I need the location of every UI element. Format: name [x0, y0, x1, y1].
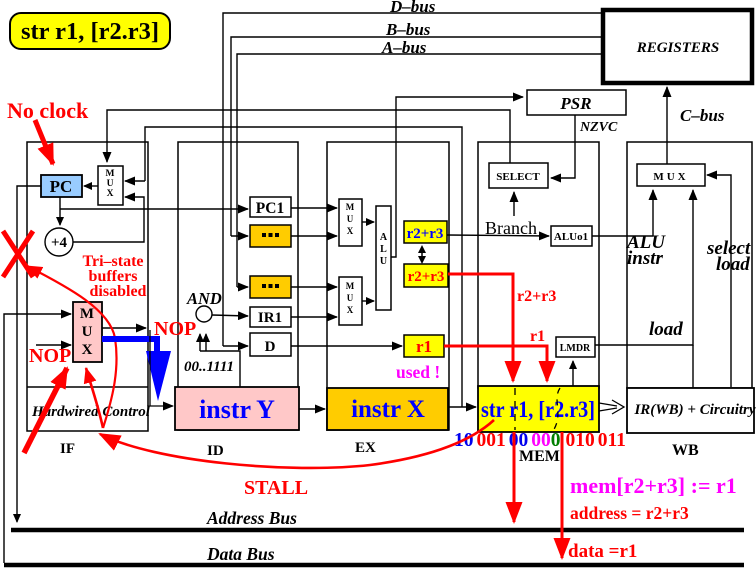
svg-text:STALL: STALL — [244, 477, 308, 499]
svg-text:IF: IF — [60, 441, 75, 457]
svg-text:load: load — [649, 319, 683, 340]
dashed line in str latch — [514, 388, 516, 430]
wire mux output NOP — [102, 327, 146, 329]
svg-text:PC: PC — [50, 177, 73, 196]
wire AND inputs from instr Y — [200, 334, 240, 387]
svg-text:r2+r3: r2+r3 — [407, 226, 444, 242]
instruction label box str r1, [r2.r3] — [10, 13, 170, 49]
A-bus wire — [237, 54, 602, 287]
wire PC to +4 — [59, 197, 61, 225]
svg-text:Data Bus: Data Bus — [206, 544, 275, 564]
svg-text:X: X — [347, 226, 354, 236]
wire A-bus arrow into A operand — [237, 286, 248, 288]
red arrow from stall to mux — [86, 368, 103, 428]
svg-text:D–bus: D–bus — [389, 0, 436, 16]
LMDR box — [556, 337, 595, 357]
B-bus wire — [231, 37, 602, 236]
double arrow str to IR(WB) — [599, 400, 624, 414]
svg-text:L: L — [380, 244, 387, 255]
wire +4 to mux — [73, 197, 144, 242]
ID stage box — [178, 142, 298, 430]
svg-text:00..1111: 00..1111 — [184, 359, 234, 375]
latch IR(WB) + Circuitry — [627, 388, 756, 433]
label select load — [706, 238, 751, 275]
svg-text:Branch: Branch — [485, 218, 537, 238]
svg-text:load: load — [716, 254, 750, 275]
red wire r1 to MEM — [444, 346, 547, 381]
svg-text:U: U — [347, 293, 354, 303]
wire PC to address bus — [17, 186, 41, 522]
wire SELECT to PC-mux — [107, 110, 510, 163]
wire AND to IR1 — [212, 315, 248, 316]
blue NOP insert arrow — [102, 339, 171, 401]
adder +4 — [45, 228, 73, 256]
svg-text:NOP: NOP — [29, 345, 71, 367]
svg-text:M: M — [346, 281, 355, 291]
svg-text:M: M — [346, 202, 355, 212]
register B operand (dots) — [250, 225, 291, 247]
red wire address to bus — [513, 432, 516, 522]
wire D-bus arrow into D — [223, 345, 248, 347]
svg-text:U: U — [107, 179, 114, 189]
svg-text:X: X — [347, 305, 354, 315]
latch instr Y — [175, 387, 299, 430]
svg-text:data =r1: data =r1 — [568, 541, 637, 562]
svg-text:U: U — [347, 214, 354, 224]
MEM stage box — [478, 142, 599, 388]
transfer arrow between r2+r3 registers — [418, 245, 426, 264]
mux WB — [637, 164, 705, 186]
ALUo1 box — [551, 226, 592, 246]
latch instr X — [327, 388, 448, 430]
svg-text:B–bus: B–bus — [385, 20, 431, 39]
EX stage box — [327, 142, 449, 430]
wire mux to instr Y — [150, 330, 173, 406]
wire LMDR to WB mux (load) — [595, 190, 693, 345]
wire Branch to SELECT — [513, 192, 515, 216]
REGISTERS box — [603, 10, 752, 83]
label ALU instr — [626, 232, 666, 269]
svg-text:WB: WB — [672, 442, 699, 459]
svg-text:instr Y: instr Y — [199, 395, 275, 424]
svg-text:REGISTERS: REGISTERS — [636, 40, 720, 56]
latch str r1 [r2.r3] — [478, 386, 599, 432]
svg-text:+4: +4 — [51, 235, 68, 251]
svg-text:EX: EX — [355, 440, 376, 456]
dashed squiggle in str latch — [553, 388, 560, 431]
register r2+r3 upper — [404, 221, 447, 243]
WB stage box — [627, 142, 752, 388]
svg-text:PSR: PSR — [559, 94, 591, 113]
wire mux2 to ALU — [362, 300, 374, 302]
svg-text:disabled: disabled — [90, 283, 147, 300]
svg-text:X: X — [107, 189, 114, 199]
svg-text:str r1, [r2.r3]: str r1, [r2.r3] — [481, 397, 595, 422]
register IR1 — [250, 307, 291, 327]
wire branch target to PC-mux and MEM — [125, 127, 462, 407]
mux EX upper — [339, 199, 362, 246]
svg-text:D: D — [265, 339, 276, 355]
red wire data to bus — [561, 432, 564, 558]
svg-text:A: A — [380, 232, 388, 243]
svg-text:A–bus: A–bus — [381, 38, 427, 57]
wire instr X to str latch — [448, 406, 476, 408]
svg-text:1000100000010011: 1000100000010011 — [454, 430, 626, 451]
svg-text:r1: r1 — [530, 328, 545, 345]
svg-text:U: U — [82, 324, 93, 340]
wire ALUo1 to WB mux — [592, 190, 653, 236]
svg-text:LMDR: LMDR — [560, 343, 591, 354]
svg-text:r2+r3: r2+r3 — [408, 269, 445, 285]
mux instruction (pink) — [73, 302, 102, 362]
svg-text:Address Bus: Address Bus — [206, 508, 297, 528]
svg-text:SELECT: SELECT — [496, 171, 540, 183]
red NOP arrow thick to mux — [24, 368, 67, 453]
ALU box — [376, 206, 391, 310]
wire load down to IR(WB) — [692, 345, 694, 388]
wire PC to PC1 — [60, 208, 248, 210]
wire NZVC to SELECT — [551, 115, 575, 178]
red wire r2+r3 to MEM — [448, 274, 513, 381]
AND gate circle — [186, 289, 222, 322]
mux IF (white) — [98, 166, 123, 205]
wire PC1 to mux1 — [291, 207, 337, 209]
wire D to r1 — [291, 345, 402, 347]
Address Bus line — [11, 528, 744, 533]
wire IR1 to mux2 — [291, 316, 337, 318]
red arrow no clock to PC — [35, 120, 53, 164]
SELECT box — [489, 163, 548, 188]
svg-text:IR(WB) + Circuitry: IR(WB) + Circuitry — [633, 402, 755, 418]
wire data bus to instruction mux — [4, 314, 71, 563]
red curve pointing to X — [27, 266, 117, 428]
svg-text:PC1: PC1 — [256, 200, 284, 217]
wire PSR input from ALU — [390, 97, 523, 257]
svg-text:instr X: instr X — [351, 396, 425, 423]
wire A operand to mux2 — [291, 286, 337, 288]
svg-text:MUX: MUX — [653, 171, 688, 183]
PSR box — [527, 90, 626, 115]
svg-text:No clock: No clock — [7, 98, 89, 123]
svg-text:address = r2+r3: address = r2+r3 — [570, 503, 689, 523]
svg-text:M: M — [80, 306, 94, 322]
svg-text:IR1: IR1 — [258, 310, 282, 326]
binary opcode string — [454, 430, 626, 451]
register D — [250, 333, 291, 356]
svg-text:r2+r3: r2+r3 — [517, 288, 556, 305]
wire str latch to LMDR — [572, 361, 574, 386]
svg-text:ALUo1: ALUo1 — [554, 231, 588, 243]
label Tri-state buffers disabled — [82, 253, 146, 300]
wire C-bus mux to REGISTERS — [666, 87, 668, 164]
svg-text:M: M — [106, 169, 115, 179]
wire mux to PC — [84, 185, 98, 187]
register r2+r3 lower — [404, 264, 448, 287]
Data Bus line — [4, 563, 744, 568]
register PC — [41, 175, 82, 197]
svg-text:r1: r1 — [416, 337, 432, 356]
svg-text:X: X — [82, 342, 93, 358]
wire B-bus arrow into B operand — [231, 235, 248, 237]
svg-text:NOP: NOP — [154, 318, 196, 340]
mux EX lower — [339, 277, 362, 325]
svg-text:U: U — [380, 256, 387, 267]
register r1 — [404, 335, 444, 357]
wire r2+r3 to ALUo1 — [447, 235, 549, 236]
IF stage box — [27, 142, 148, 431]
register A operand (dots) — [250, 276, 291, 298]
register PC1 — [250, 197, 291, 217]
D-bus wire — [223, 13, 602, 346]
wire B operand to mux1 — [291, 235, 337, 237]
red STALL arc — [100, 420, 494, 468]
svg-text:C–bus: C–bus — [680, 106, 725, 125]
svg-text:NZVC: NZVC — [579, 120, 618, 135]
wire select load to mux — [707, 175, 731, 387]
wire NOP input to mux — [36, 344, 71, 346]
svg-text:str r1, [r2.r3]: str r1, [r2.r3] — [21, 19, 159, 45]
svg-text:AND: AND — [186, 289, 222, 308]
wire mux1 to ALU — [362, 221, 374, 223]
svg-text:ID: ID — [207, 443, 224, 459]
svg-text:instr: instr — [627, 248, 664, 269]
svg-text:mem[r2+r3] := r1: mem[r2+r3] := r1 — [570, 473, 737, 498]
svg-text:used !: used ! — [396, 362, 440, 382]
wire instr Y to instr X — [299, 408, 325, 410]
red X mark — [3, 231, 33, 277]
